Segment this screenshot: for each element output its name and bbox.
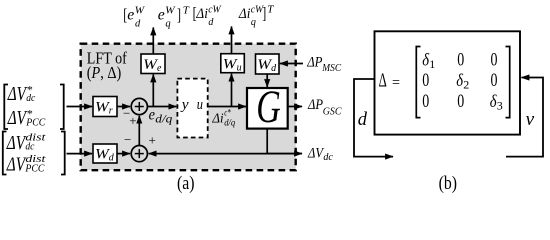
wire: v input loop <box>506 78 543 157</box>
svg-text:u: u <box>197 97 203 113</box>
svg-text:e: e <box>127 7 134 24</box>
svg-text:−: − <box>124 132 131 147</box>
svg-text:d/q: d/q <box>224 119 235 129</box>
svg-text:W: W <box>135 6 146 17</box>
LFT region dashed box <box>81 44 296 171</box>
svg-text:PCC: PCC <box>25 163 45 175</box>
label: LFT of (P, Delta) <box>87 49 127 83</box>
svg-text:0: 0 <box>457 91 464 112</box>
summing junction S2 <box>131 146 147 162</box>
Delta block box (b) <box>375 31 521 134</box>
svg-text:T: T <box>183 4 190 16</box>
block We <box>141 54 165 74</box>
svg-text:]: ] <box>177 5 181 24</box>
wire: vector2 into Wd bottom <box>67 153 93 155</box>
wire: S1 output to controller K <box>147 106 176 108</box>
wire: d output loop <box>354 79 393 157</box>
svg-text:0: 0 <box>491 70 498 91</box>
block Wd (bottom) <box>93 144 117 164</box>
svg-text:cW: cW <box>208 5 222 16</box>
svg-text:c*: c* <box>224 109 231 119</box>
svg-text:(a): (a) <box>177 173 195 194</box>
svg-text:v: v <box>526 109 535 130</box>
svg-text:T: T <box>267 4 274 16</box>
block Wr <box>93 97 117 117</box>
wire: Vdc feedback line arrow into S2 <box>149 153 302 155</box>
svg-text:dc: dc <box>25 141 34 153</box>
wire: branch from e line up into We <box>152 75 154 107</box>
wire: branch from u line up into Wu <box>231 74 233 107</box>
svg-text:q: q <box>165 18 170 29</box>
summing junction S1 <box>131 98 147 114</box>
svg-text:e: e <box>149 107 155 124</box>
svg-text:(P, Δ): (P, Δ) <box>87 63 122 82</box>
wire: Wu output up to label <box>231 27 233 54</box>
label dPMSC <box>306 54 342 74</box>
svg-text:Δi: Δi <box>196 6 208 22</box>
node: output vector [ed eq]T label <box>123 4 190 29</box>
wire: G output dPGSC <box>288 106 302 108</box>
wire: Wr to summing junction S1 <box>117 106 130 108</box>
label dVdc output <box>307 145 333 163</box>
wire: dPMSC input into Wd top block <box>280 63 303 65</box>
block Wu <box>221 54 245 74</box>
svg-text:u: u <box>237 63 242 74</box>
matrix row 3 <box>422 91 502 112</box>
wire: We output up to label <box>152 28 154 55</box>
svg-text:d/q: d/q <box>155 114 172 126</box>
svg-text:d: d <box>135 18 141 29</box>
node: input vector 1 [dVdc* dVPCC*] <box>4 83 63 130</box>
svg-text:d: d <box>208 17 214 28</box>
svg-text:ΔP: ΔP <box>306 54 322 70</box>
svg-text:1: 1 <box>429 57 435 71</box>
label dPGSC <box>307 97 342 117</box>
svg-text:y: y <box>180 97 189 113</box>
svg-text:dc: dc <box>26 92 35 104</box>
svg-text:d: d <box>358 109 368 130</box>
svg-text:(b): (b) <box>439 173 457 194</box>
label e_d/q <box>149 107 173 126</box>
svg-text:MSC: MSC <box>321 63 342 74</box>
label Delta = <box>379 71 400 92</box>
svg-text:ΔV: ΔV <box>6 132 27 154</box>
svg-text:Δi: Δi <box>238 6 250 22</box>
block Wd (disturbance, top) <box>256 54 280 74</box>
wire: Wd to summing junction S2 <box>117 153 130 155</box>
svg-text:3: 3 <box>497 98 503 112</box>
label dI_d/q_c* <box>211 109 235 129</box>
wire: Wd top output down into G <box>266 74 268 87</box>
svg-text:0: 0 <box>422 91 429 112</box>
svg-text:=: = <box>392 75 400 92</box>
svg-text:0: 0 <box>422 70 429 91</box>
svg-text:ΔV: ΔV <box>307 145 324 161</box>
svg-text:Δi: Δi <box>211 110 223 125</box>
matrix row 1 <box>422 50 497 71</box>
block G <box>247 81 288 133</box>
svg-text:ΔV: ΔV <box>7 83 28 105</box>
wire: Vdc output arrow right <box>267 153 302 155</box>
node: output vector [dId dIq]T label <box>193 3 275 27</box>
matrix brackets <box>416 47 509 118</box>
svg-text:e: e <box>158 7 165 24</box>
svg-text:+: + <box>129 113 136 128</box>
controller K dashed box <box>177 79 207 138</box>
svg-text:ΔP: ΔP <box>307 97 323 113</box>
svg-text:0: 0 <box>457 50 464 71</box>
wire: G bottom down to Vdc line <box>266 129 268 155</box>
node: input vector 2 [dVdc_dist dVPCC_dist] <box>3 131 65 175</box>
svg-text:G: G <box>256 81 281 133</box>
matrix row 2 <box>422 70 497 91</box>
svg-text:ΔV: ΔV <box>6 153 27 175</box>
svg-text:GSC: GSC <box>323 106 343 117</box>
svg-text:PCC: PCC <box>25 117 45 129</box>
wire: S2 output up into S1 <box>138 116 140 146</box>
svg-text:r: r <box>109 106 113 117</box>
svg-text:0: 0 <box>491 50 498 71</box>
svg-text:ΔV: ΔV <box>7 107 28 129</box>
svg-text:e: e <box>157 63 162 74</box>
svg-text:2: 2 <box>463 77 469 91</box>
wire: vector1 into Wr <box>67 106 93 108</box>
svg-text:W: W <box>165 6 176 17</box>
wire: controller output u to G <box>208 106 246 108</box>
svg-text:dc: dc <box>323 152 333 163</box>
svg-text:q: q <box>251 17 256 28</box>
svg-text:]: ] <box>262 3 266 22</box>
svg-text:+: + <box>149 132 156 147</box>
svg-text:Δ: Δ <box>379 71 387 92</box>
